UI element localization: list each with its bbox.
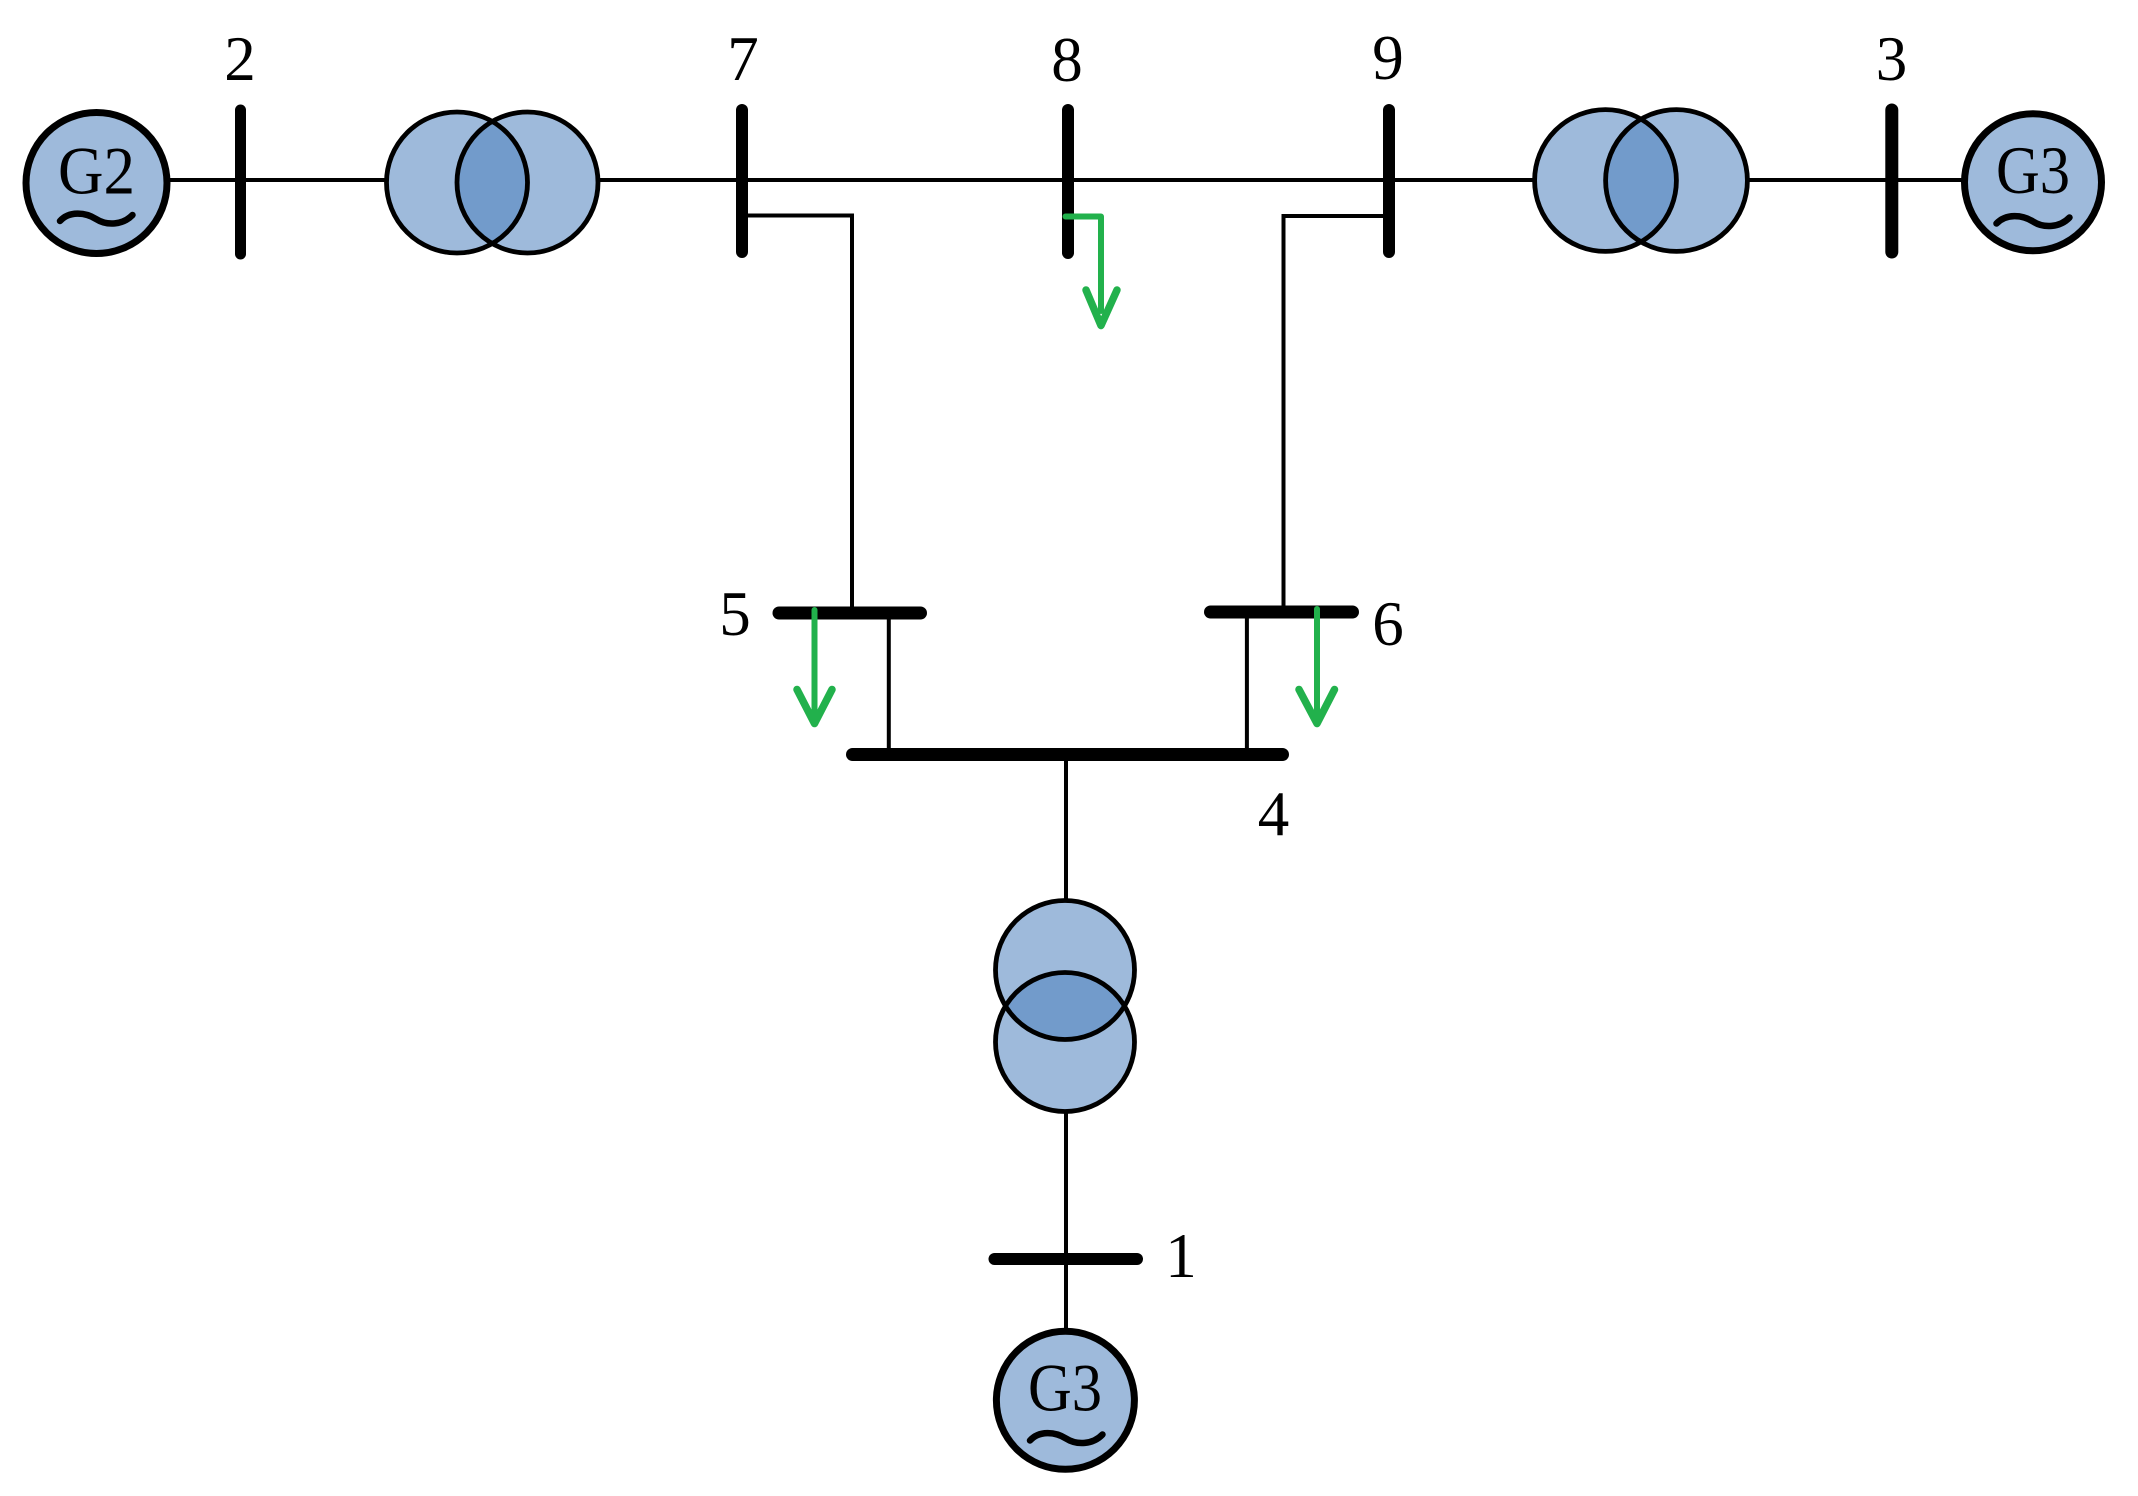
svg-text:5: 5 xyxy=(719,579,751,649)
wire bus9 branch down to bus6 xyxy=(1284,216,1388,614)
bus 4 xyxy=(853,748,1283,761)
transformer T3 xyxy=(996,901,1135,1112)
wire transformer T2 to G3 xyxy=(1747,178,1965,182)
transformer T1 xyxy=(387,112,599,253)
bus 1 xyxy=(995,1253,1138,1265)
bus 7 xyxy=(736,110,748,252)
wire bus4 to transformer T3 xyxy=(1064,754,1068,902)
wire main line bus7-bus8-bus9 xyxy=(598,178,1535,182)
bus 5 xyxy=(779,607,921,620)
bus 9 xyxy=(1383,110,1395,252)
svg-text:6: 6 xyxy=(1372,589,1404,659)
bus 6 xyxy=(1211,606,1353,619)
generator G3 top xyxy=(1965,114,2102,251)
load arrow at bus 8 xyxy=(1066,217,1118,326)
generator G1 labelled G3 bottom xyxy=(996,1331,1134,1469)
bus 3 xyxy=(1885,110,1898,252)
wire bus5 to bus4 xyxy=(887,613,891,756)
svg-text:G3: G3 xyxy=(1996,132,2070,208)
bus 8 xyxy=(1062,110,1074,253)
svg-text:G2: G2 xyxy=(58,133,135,209)
generator G2 xyxy=(26,113,167,254)
load arrow at bus 6 xyxy=(1299,609,1335,724)
wire transformer T3 to G1 through bus1 xyxy=(1064,1110,1068,1332)
wire bus7 branch down to bus5 xyxy=(744,216,852,616)
svg-text:9: 9 xyxy=(1372,23,1404,93)
bus 2 xyxy=(235,110,246,254)
wire G2 to transformer T1 xyxy=(167,178,388,182)
load arrow at bus 5 xyxy=(797,610,832,724)
svg-text:3: 3 xyxy=(1876,24,1908,94)
svg-text:7: 7 xyxy=(727,24,759,94)
svg-text:2: 2 xyxy=(224,24,256,94)
wire bus6 to bus4 xyxy=(1245,612,1249,756)
transformer T2 xyxy=(1535,110,1748,252)
svg-text:1: 1 xyxy=(1165,1221,1197,1291)
svg-text:4: 4 xyxy=(1258,779,1290,849)
svg-text:G3: G3 xyxy=(1028,1350,1102,1426)
svg-text:8: 8 xyxy=(1051,25,1083,95)
